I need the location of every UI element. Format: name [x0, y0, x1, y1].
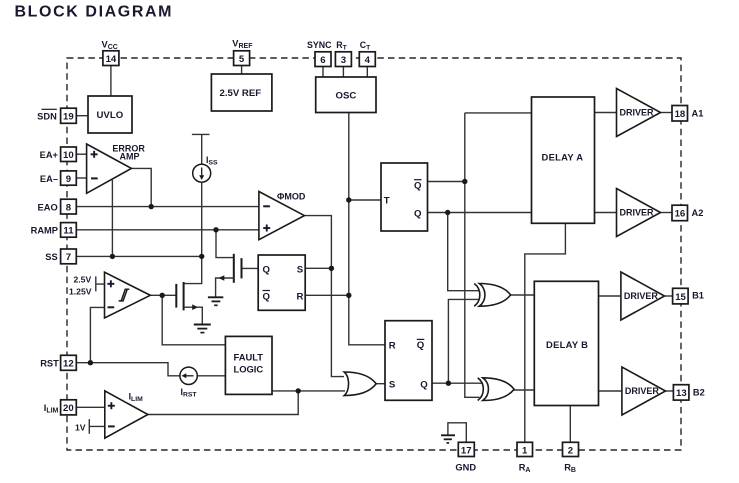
pin 2 box: [563, 442, 579, 456]
wire pin6 to OSC: [322, 66, 324, 77]
wire delay B bottom to pin 2 RB: [569, 406, 571, 443]
svg-text:RA: RA: [519, 463, 531, 475]
wire driver A1 to pin 18: [661, 112, 673, 114]
transistor Q2 gate bar: [241, 258, 243, 278]
svg-text:7: 7: [66, 252, 71, 263]
svg-text:DRIVER: DRIVER: [620, 208, 655, 218]
svg-text:EAO: EAO: [38, 202, 58, 212]
wire pin20 to ILIM comparator: [76, 406, 105, 408]
svg-text:B2: B2: [693, 388, 705, 398]
pin 15 box: [673, 288, 689, 304]
node clock T junction: [346, 197, 351, 202]
svg-text:EA–: EA–: [40, 174, 58, 184]
block OSC: [316, 77, 376, 113]
or gate U5: [344, 372, 376, 396]
svg-text:OSC: OSC: [336, 91, 357, 102]
wire ISS rail and mosfet Q1 drain: [184, 134, 210, 283]
svg-text:GND: GND: [455, 463, 476, 473]
wire RAMP line: [76, 229, 259, 231]
svg-text:R: R: [389, 341, 396, 352]
wire XOR B2 output to delay B: [512, 389, 534, 391]
AMPLIFIER TRIANGLES: [87, 89, 666, 439]
GROUND SYMBOLS: [194, 297, 455, 443]
wire delay B to driver B1: [599, 295, 621, 297]
svg-text:Q: Q: [263, 291, 271, 302]
transistor Q1 gate bar: [175, 284, 177, 308]
pin 9 box: [61, 171, 77, 185]
current source ISS: [193, 164, 211, 182]
latch U2: [258, 255, 305, 310]
svg-text:DRIVER: DRIVER: [625, 386, 660, 396]
wire EA-: [76, 177, 86, 179]
node Qbar junction: [462, 179, 467, 184]
wire driver A2 to pin 16: [661, 212, 673, 214]
ground at pin 17: [441, 434, 455, 436]
IC boundary dashed border: [67, 58, 681, 450]
driver B1: [621, 272, 665, 320]
svg-text:S: S: [389, 380, 396, 391]
wire EAO line: [76, 206, 259, 208]
pin 1 box: [517, 442, 533, 456]
svg-text:RT: RT: [336, 40, 347, 52]
wire node Q down to XOR B1 top input: [448, 213, 480, 291]
wire pin14 to UVLO: [110, 66, 112, 97]
wire XOR B1 output to delay B: [511, 294, 535, 296]
svg-text:DELAY A: DELAY A: [542, 152, 584, 163]
node fault ILIM junction: [296, 388, 301, 393]
pin 6 box: [315, 52, 331, 67]
block DELAY B: [534, 281, 598, 405]
svg-text:1.25V: 1.25V: [69, 287, 92, 297]
wire ILIM comparator output: [148, 391, 298, 415]
svg-text:RAMP: RAMP: [31, 226, 58, 236]
block DELAY A: [532, 97, 595, 223]
pin 8 box: [61, 199, 77, 214]
svg-text:20: 20: [63, 403, 74, 414]
node RAMP junction: [213, 227, 218, 232]
svg-text:VREF: VREF: [232, 39, 253, 51]
GATES: [344, 284, 514, 401]
svg-text:5: 5: [239, 54, 245, 65]
transistor Q2 source lead: [216, 278, 234, 297]
label ilim minus: [108, 425, 115, 427]
pin 16 box: [672, 205, 688, 221]
MOSFETS: [176, 254, 241, 311]
svg-text:ΦMOD: ΦMOD: [277, 192, 306, 202]
ground below Q1: [194, 324, 211, 326]
node SS ISS junction: [199, 254, 204, 259]
wire error amp output: [131, 168, 151, 206]
wire FF2 Q to XOR B2 top input: [432, 382, 483, 384]
wire comparator output to gate Q1: [150, 294, 175, 296]
wire pin4 to OSC: [366, 66, 368, 77]
node SS clamp junction: [110, 254, 115, 259]
wire delay A to driver A1: [595, 112, 617, 114]
wire latch U2 S to phimod output: [305, 267, 331, 269]
pin 3 box: [335, 52, 351, 67]
svg-text:B1: B1: [692, 291, 704, 301]
svg-text:6: 6: [320, 55, 325, 66]
svg-text:CT: CT: [360, 40, 371, 52]
label error amp minus: [91, 177, 98, 179]
arrow ISS down: [201, 168, 203, 177]
svg-text:10: 10: [63, 150, 74, 161]
svg-text:T: T: [384, 196, 390, 207]
wire XOR B1 lower input to FF2 Q node: [448, 299, 479, 383]
svg-text:DRIVER: DRIVER: [624, 291, 659, 301]
wire IRST to fault: [197, 375, 225, 377]
transistor Q1 channel bar: [183, 282, 185, 310]
wire T-FF Q to delay A: [428, 212, 532, 214]
hysteresis symbol: [119, 289, 130, 301]
xor gate B1: [474, 284, 510, 307]
svg-text:1V: 1V: [75, 423, 86, 433]
svg-text:9: 9: [66, 174, 71, 185]
svg-text:19: 19: [63, 111, 74, 122]
wire RAMP to Q2 drain: [216, 230, 234, 258]
xor gate B2: [478, 378, 514, 401]
svg-text:VCC: VCC: [102, 40, 118, 52]
node EAO junction: [149, 204, 154, 209]
svg-text:14: 14: [106, 54, 117, 65]
pin 20 box: [61, 400, 77, 415]
svg-text:Q: Q: [420, 380, 428, 391]
pin 11 box: [61, 223, 77, 238]
op-amp error amp: [87, 144, 132, 193]
wire latch U2 R to clock: [305, 294, 349, 296]
comparator phimod: [259, 192, 305, 240]
wire comparator minus to RST: [90, 307, 104, 362]
comparator ILIM: [105, 391, 148, 438]
svg-text:FAULT: FAULT: [234, 352, 264, 363]
svg-text:DELAY B: DELAY B: [546, 339, 588, 350]
wire latch U2 Q to gate Q2: [242, 267, 259, 269]
svg-text:15: 15: [675, 292, 686, 303]
svg-text:3: 3: [341, 55, 346, 66]
arrow IRST left: [185, 375, 194, 377]
svg-text:SDN: SDN: [37, 111, 57, 121]
svg-text:1: 1: [522, 445, 528, 456]
svg-text:ILIM: ILIM: [44, 403, 59, 415]
svg-text:17: 17: [461, 445, 472, 456]
wire comparator refs tick: [96, 276, 105, 291]
svg-text:18: 18: [675, 109, 686, 120]
svg-text:AMP: AMP: [120, 152, 140, 162]
wire comparator output down to fault logic: [162, 295, 225, 345]
flip-flop U4: [385, 321, 432, 401]
block UVLO: [88, 96, 132, 133]
node comparator output junction: [160, 293, 165, 298]
pin 13 box: [673, 385, 689, 400]
wire EA+: [76, 153, 86, 155]
node RST junction: [88, 360, 93, 365]
svg-text:RST: RST: [40, 358, 59, 368]
CURRENT SOURCES: [180, 164, 211, 384]
arrow Q2 source: [219, 275, 225, 281]
svg-text:SS: SS: [45, 252, 57, 262]
ground below Q2: [208, 296, 223, 298]
flip-flop T U3: [381, 163, 428, 231]
label ilim plus: [108, 402, 115, 409]
svg-text:13: 13: [676, 388, 687, 399]
svg-text:ILIM: ILIM: [129, 392, 143, 404]
svg-text:8: 8: [66, 202, 72, 213]
PIN BOXES: [61, 51, 689, 457]
pin 5 box: [234, 51, 250, 66]
wire pin3 to OSC: [342, 66, 344, 77]
wire OSC clock vertical to FF2 R: [349, 113, 385, 345]
svg-text:ISS: ISS: [206, 155, 218, 167]
svg-text:Q: Q: [263, 264, 271, 275]
svg-text:RB: RB: [564, 463, 576, 475]
svg-text:2: 2: [568, 445, 573, 456]
pin 4 box: [359, 52, 375, 67]
label phimod plus: [263, 225, 270, 232]
wire pin19 to UVLO: [76, 115, 88, 117]
label hyst plus: [107, 280, 114, 287]
arrow Q1 source: [192, 304, 198, 310]
svg-text:LOGIC: LOGIC: [234, 364, 264, 375]
wire pin17 to ground: [448, 423, 466, 443]
pin 7 box: [61, 249, 77, 264]
wire phimod output vertical to OR gate: [304, 216, 344, 377]
wire T-FF Qbar to delay A and XOR B2 input: [428, 113, 532, 397]
svg-text:DRIVER: DRIVER: [620, 108, 655, 118]
comparator hysteresis: [105, 272, 151, 318]
wire SS line: [76, 255, 202, 257]
driver A1: [617, 89, 661, 137]
pin 10 box: [61, 147, 77, 162]
wire T input: [349, 199, 381, 201]
BLOCKS: [88, 74, 599, 406]
wire delay A bottom to pin 1 RA: [525, 223, 566, 442]
transistor Q1 source lead: [184, 307, 203, 324]
wire pin5 to 2.5V REF: [241, 66, 243, 75]
svg-text:R: R: [297, 291, 304, 302]
pin 14 box: [103, 51, 119, 66]
junction dots: [88, 179, 468, 394]
svg-text:2.5V REF: 2.5V REF: [220, 88, 262, 99]
wire driver B2 to pin 13: [666, 390, 674, 392]
wire delay B to driver B2: [599, 390, 622, 392]
block FAULT LOGIC: [225, 336, 272, 394]
svg-text:UVLO: UVLO: [97, 110, 124, 121]
svg-text:BLOCK DIAGRAM: BLOCK DIAGRAM: [15, 3, 174, 20]
transistor Q2 channel bar: [233, 254, 235, 283]
svg-text:IRST: IRST: [181, 387, 198, 399]
driver B2: [622, 367, 666, 415]
wire OR output to FF2 S: [376, 383, 385, 385]
node Q junction: [445, 210, 450, 215]
wire fault output to OR gate input: [272, 390, 345, 392]
svg-text:Q: Q: [414, 181, 422, 192]
node clock R junction: [346, 293, 351, 298]
svg-text:16: 16: [675, 209, 686, 220]
pin 12 box: [61, 355, 77, 370]
svg-text:4: 4: [365, 55, 371, 66]
pin 19 box: [61, 108, 77, 123]
svg-text:11: 11: [63, 226, 74, 237]
svg-text:S: S: [297, 264, 304, 275]
pin 17 box: [458, 442, 474, 456]
label hyst minus: [108, 306, 115, 308]
svg-text:2.5V: 2.5V: [74, 274, 92, 284]
label phimod minus: [263, 205, 270, 207]
wire delay A to driver A2: [595, 212, 617, 214]
svg-text:EA+: EA+: [40, 150, 59, 160]
wire RST line to IRST to fault logic: [76, 363, 180, 376]
svg-text:A2: A2: [692, 208, 704, 218]
node FF2 Q junction: [446, 381, 451, 386]
svg-text:A1: A1: [692, 109, 704, 119]
wire driver B1 to pin 15: [665, 295, 673, 297]
svg-text:SYNC: SYNC: [307, 40, 332, 50]
driver A2: [617, 189, 661, 237]
wire error amp to SS clamp: [111, 180, 113, 256]
pin 18 box: [672, 106, 688, 122]
wire 1V ref to ILIM comparator: [89, 419, 105, 434]
svg-text:Q: Q: [414, 208, 422, 219]
current source IRST: [180, 367, 197, 384]
svg-text:Q: Q: [417, 340, 425, 351]
block 2.5V REF: [211, 74, 272, 111]
svg-text:12: 12: [63, 358, 74, 369]
label error amp plus: [91, 151, 98, 158]
node S phimod junction: [329, 266, 334, 271]
